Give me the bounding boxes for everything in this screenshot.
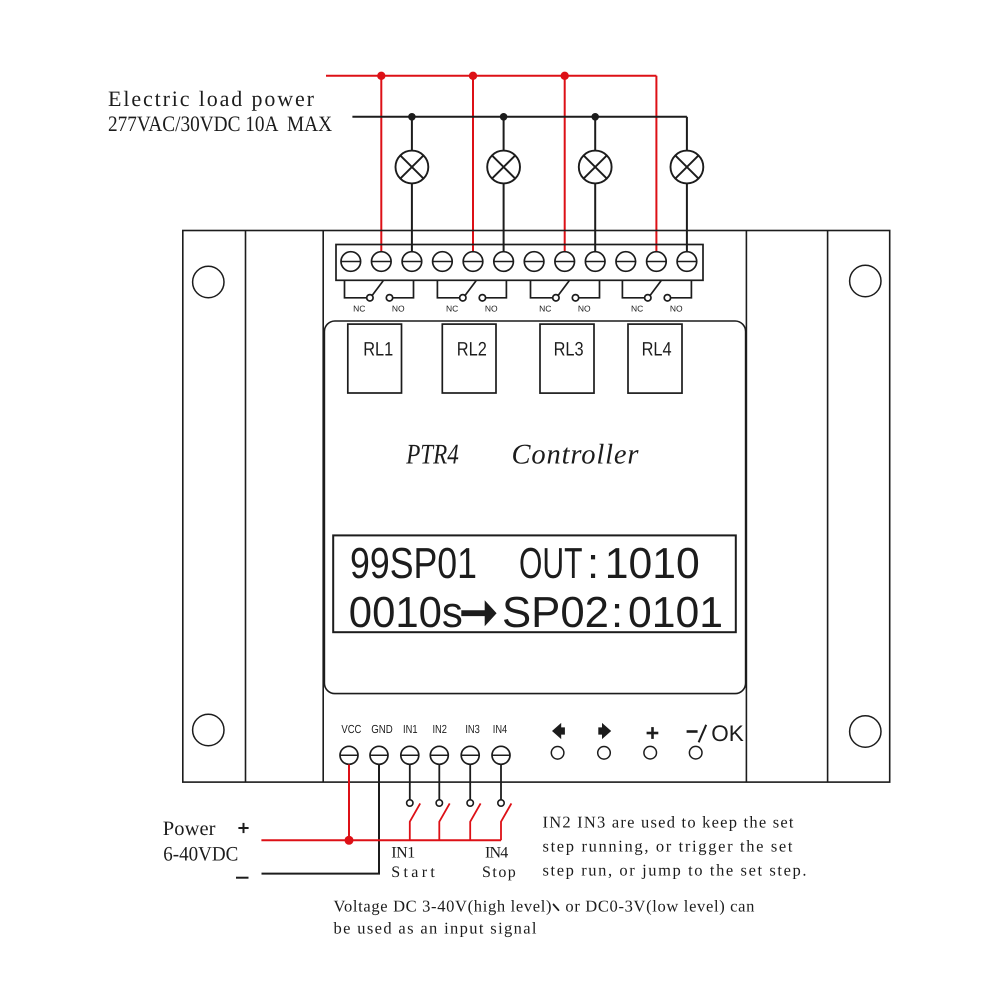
svg-text:OK: OK [711,721,744,746]
relay RL1 [348,324,402,393]
lamp L2 [487,151,520,184]
relay contact group 4 (NC/NO) [622,280,691,301]
svg-text:99SP01: 99SP01 [350,540,477,588]
relay RL4 [628,324,682,393]
lamp L1 [396,151,429,184]
lamp L4 [671,151,704,184]
relay contact group 3 (NC/NO) [531,280,600,301]
svg-text:VCC: VCC [341,723,361,736]
svg-text:1010: 1010 [605,540,700,588]
svg-text:Electric load power: Electric load power [108,86,315,111]
terminal screws 1-12 [341,252,697,272]
relay contact group 2 (NC/NO) [437,280,506,301]
label: Power + / 6-40VDC / - [163,818,239,866]
bottom terminal screws VCC GND IN1-IN4 [340,746,510,764]
ideographic comma mark [554,905,559,911]
svg-text:0101: 0101 [628,589,723,637]
svg-text:IN2: IN2 [432,723,447,736]
svg-text:0010s: 0010s [349,589,463,637]
label: PTR4 Controller [405,440,639,471]
front panel rounded rect [324,321,745,694]
svg-text:OUT: OUT [519,540,583,588]
label: electric load power text [108,86,332,136]
svg-text:NC: NC [631,304,643,314]
svg-text::: : [611,589,623,637]
svg-text:IN1: IN1 [403,723,418,736]
svg-text:NC: NC [539,304,551,314]
enclosure body outline [183,231,890,783]
relay RL2 [442,324,496,393]
label: IN2 IN3 note [543,813,807,880]
svg-text:IN3: IN3 [465,723,480,736]
svg-text:or DC0-3V(low level) can: or DC0-3V(low level) can [565,897,754,916]
svg-text:GND: GND [371,723,393,736]
mounting hole top-right [850,265,881,296]
terminal block top [336,245,703,281]
node: red bus junctions [377,72,569,80]
svg-text:NC: NC [446,304,458,314]
svg-text:Voltage DC 3-40V(high level): Voltage DC 3-40V(high level) [334,897,552,916]
node: VCC junction on power bus [345,836,354,845]
svg-text:277VAC/30VDC 10A MAX: 277VAC/30VDC 10A MAX [108,111,332,136]
button minus / OK [687,721,744,759]
svg-text:RL1: RL1 [363,338,393,360]
mounting hole top-left [193,266,224,297]
button plus [644,727,658,759]
LCD display [333,535,736,632]
switch levers (red) and power bus [261,803,511,840]
button left-arrow [551,723,565,759]
svg-text:Stop: Stop [482,864,516,881]
wire: input stubs IN1-IN4 [410,765,501,800]
label: IN1 Start / IN4 Stop [391,844,516,881]
svg-text:NO: NO [670,304,683,314]
svg-text:IN2 IN3 are used to keep the s: IN2 IN3 are used to keep the set [543,813,794,832]
svg-text:SP02: SP02 [502,589,609,637]
svg-text::: : [587,540,599,588]
svg-text:IN1: IN1 [391,844,415,861]
svg-text:Power: Power [163,818,216,840]
svg-text:NC: NC [353,304,365,314]
svg-text:IN4: IN4 [493,723,508,736]
button right-arrow [598,723,612,759]
relay RL3 [540,324,594,393]
node: black bus junctions [408,113,599,121]
svg-text:6-40VDC: 6-40VDC [163,844,238,866]
lamp L3 [579,151,612,184]
relay contact group 1 (NC/NO) [345,280,414,301]
svg-text:Controller: Controller [512,440,640,471]
svg-text:RL2: RL2 [457,338,487,360]
wire: black load return bus [352,117,687,252]
wire: VCC red supply [348,765,350,841]
svg-text:PTR4: PTR4 [405,440,458,471]
svg-text:be used as an input signal: be used as an input signal [334,919,537,938]
switch contact circles IN1-IN4 [407,800,505,806]
terminal screw slots [341,261,697,263]
svg-text:IN4: IN4 [485,844,508,861]
svg-text:NO: NO [578,304,591,314]
mounting hole bottom-right [850,716,881,747]
svg-text:RL3: RL3 [554,338,584,360]
wire: red load power bus [326,76,656,252]
label: voltage note [334,897,755,938]
svg-text:NO: NO [485,304,498,314]
svg-text:NO: NO [392,304,405,314]
svg-text:step run, or jump to the set s: step run, or jump to the set step. [543,861,807,880]
mounting hole bottom-left [193,714,224,745]
bottom terminal labels [341,723,507,736]
wire: GND black return [262,765,380,874]
LCD arrow [461,600,496,626]
svg-text:RL4: RL4 [642,338,672,360]
